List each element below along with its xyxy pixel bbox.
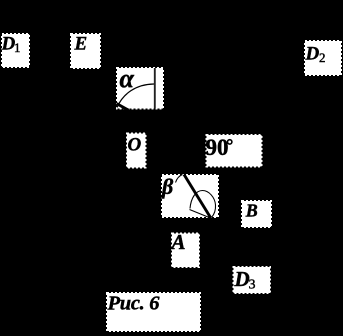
label D3 box (234, 267, 271, 293)
small arc fragment top-left (176, 175, 183, 183)
edge line fragment bottom-left (117, 104, 129, 111)
caption box Ris. 6 (107, 293, 201, 332)
angle arc alpha (117, 84, 154, 108)
svg-text:D: D (234, 267, 250, 291)
label B box (242, 201, 271, 227)
svg-text:β: β (161, 174, 174, 199)
label D1 box (1, 34, 30, 68)
svg-text:O: O (128, 135, 142, 156)
label O box (127, 134, 146, 168)
label 90 degrees box (206, 135, 262, 167)
svg-text:90: 90 (206, 135, 229, 160)
thick diagonal edge line (184, 175, 211, 219)
svg-text:B: B (245, 201, 258, 221)
label D2 box (305, 41, 342, 75)
label E box (71, 34, 100, 69)
angle arc beta (190, 191, 216, 218)
vertical edge line (154, 68, 156, 109)
label A box (170, 230, 200, 267)
ray line (190, 210, 210, 218)
svg-text:A: A (170, 230, 186, 254)
angle alpha box (117, 64, 164, 110)
svg-text:α: α (120, 64, 135, 93)
svg-text:Рис. 6: Рис. 6 (107, 293, 161, 315)
svg-text:E: E (74, 34, 88, 55)
svg-text:D: D (305, 44, 320, 65)
svg-text:3: 3 (249, 278, 256, 293)
svg-text:1: 1 (14, 40, 21, 55)
angle beta box (161, 174, 218, 218)
svg-text:2: 2 (319, 50, 326, 65)
